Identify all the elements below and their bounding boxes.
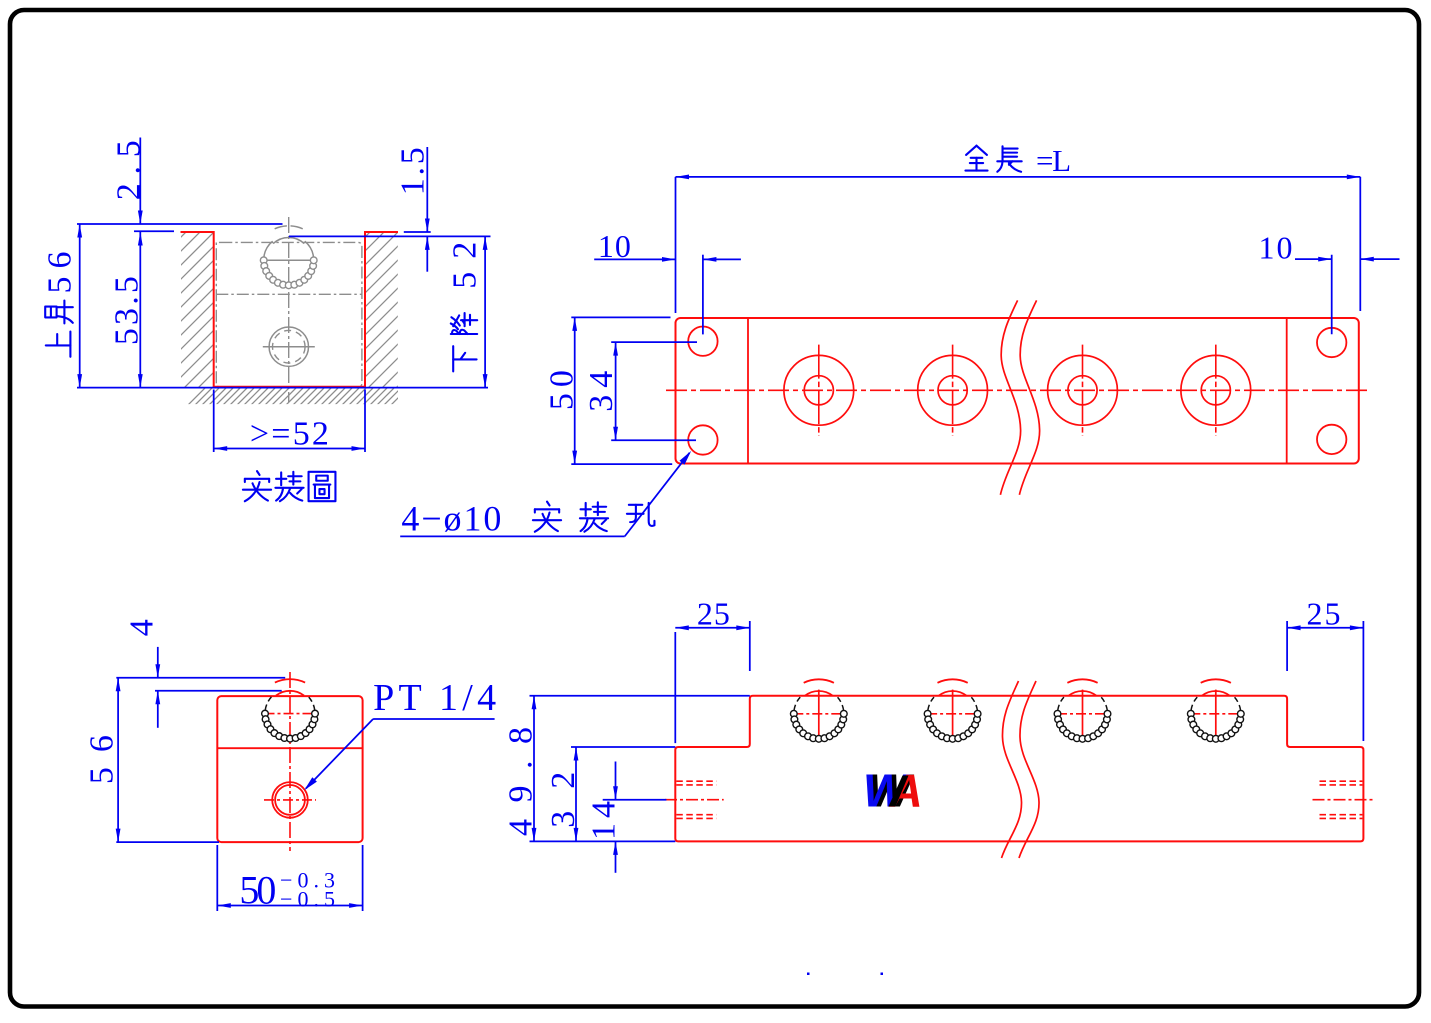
svg-text:50: 50 — [239, 868, 276, 913]
svg-text:>=52: >=52 — [250, 415, 329, 452]
svg-text:53.5: 53.5 — [109, 276, 146, 345]
svg-text:=L: =L — [1036, 143, 1071, 178]
svg-text:A: A — [889, 765, 923, 817]
svg-text:10: 10 — [598, 228, 631, 264]
svg-text:25: 25 — [697, 596, 730, 632]
svg-text:PT 1/4: PT 1/4 — [373, 677, 496, 719]
svg-text:2.5: 2.5 — [111, 140, 148, 200]
svg-text:4−ø10: 4−ø10 — [401, 499, 501, 539]
svg-text:1.5: 1.5 — [395, 147, 432, 195]
svg-text:4: 4 — [124, 619, 161, 636]
svg-text:−0.5: −0.5 — [280, 887, 335, 912]
